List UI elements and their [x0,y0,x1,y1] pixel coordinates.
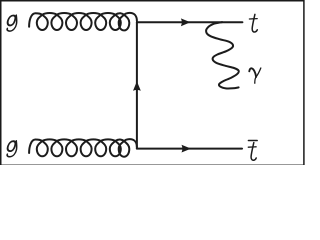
label gamma (custom CM-style glyph) [249,68,260,83]
label g (top) : custom CM-style single-story g [5,15,18,31]
label tbar (bottom right) : custom CM-style t [248,143,256,161]
wire: quark propagator (vertical) [136,22,138,148]
label g (bottom) : custom CM-style single-story g [5,141,18,157]
label t (top right) : custom CM-style t [249,14,257,32]
arrow on propagator (up) [133,81,141,91]
wire: outgoing top quark line t [137,21,243,23]
arrow on tbar line [182,145,192,153]
border frame [1,1,304,166]
arrow on t line [181,18,191,26]
gluon g1 (top, incoming) [29,13,137,31]
overbar of tbar label [248,140,257,142]
photon line gamma [206,22,239,88]
wire: outgoing anti-top quark line tbar [137,148,242,150]
gluon g2 (bottom, incoming) [29,139,137,157]
